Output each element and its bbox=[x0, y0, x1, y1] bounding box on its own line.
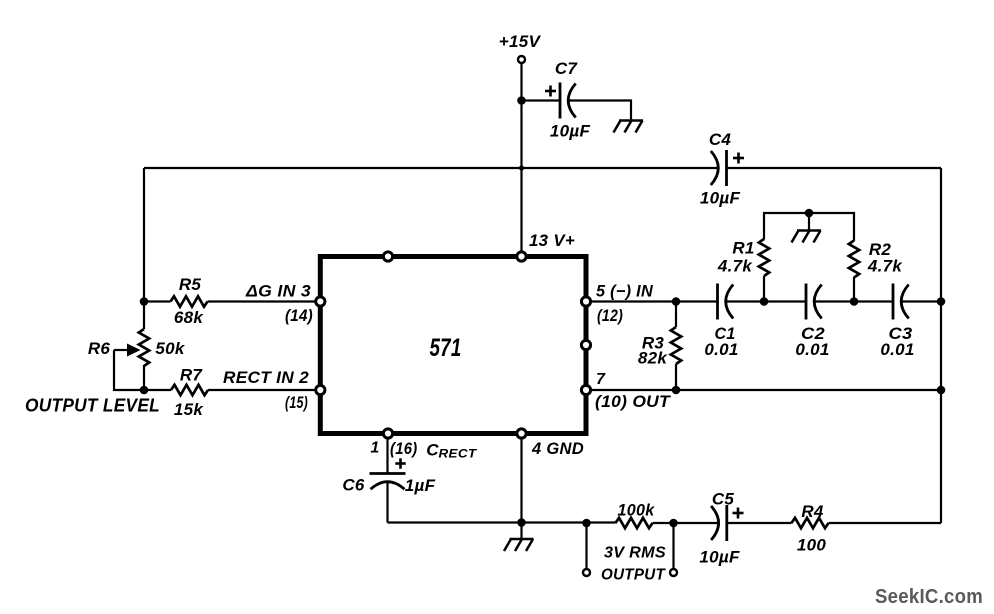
svg-text:50k: 50k bbox=[155, 339, 186, 358]
svg-text:R7: R7 bbox=[180, 366, 204, 385]
svg-text:C6: C6 bbox=[342, 476, 365, 495]
svg-text:4.7k: 4.7k bbox=[867, 257, 904, 276]
svg-text:(10) OUT: (10) OUT bbox=[595, 393, 672, 411]
svg-text:3V RMS: 3V RMS bbox=[604, 545, 666, 562]
svg-text:100k: 100k bbox=[618, 502, 656, 520]
svg-text:1: 1 bbox=[370, 440, 379, 457]
svg-text:SeekIC.com: SeekIC.com bbox=[875, 585, 983, 608]
svg-text:10µF: 10µF bbox=[699, 548, 740, 567]
svg-text:C5: C5 bbox=[712, 490, 735, 509]
svg-text:(14): (14) bbox=[285, 307, 313, 325]
svg-text:C7: C7 bbox=[555, 59, 579, 78]
svg-text:1µF: 1µF bbox=[405, 476, 436, 495]
svg-text:10µF: 10µF bbox=[700, 189, 741, 208]
svg-text:C: C bbox=[426, 441, 439, 460]
svg-text:RECT IN 2: RECT IN 2 bbox=[223, 369, 309, 387]
svg-text:5 (−) IN: 5 (−) IN bbox=[596, 283, 654, 301]
svg-text:0.01: 0.01 bbox=[880, 340, 914, 359]
svg-text:R6: R6 bbox=[88, 339, 111, 358]
svg-text:(16): (16) bbox=[390, 440, 418, 458]
svg-text:RECT: RECT bbox=[439, 447, 479, 461]
svg-text:R4: R4 bbox=[801, 502, 824, 521]
svg-text:10µF: 10µF bbox=[550, 122, 591, 141]
svg-text:0.01: 0.01 bbox=[704, 340, 738, 359]
svg-text:C4: C4 bbox=[709, 130, 732, 149]
svg-text:OUTPUT LEVEL: OUTPUT LEVEL bbox=[25, 395, 160, 416]
svg-text:+15V: +15V bbox=[499, 32, 542, 51]
svg-text:13 V+: 13 V+ bbox=[529, 231, 575, 250]
svg-text:82k: 82k bbox=[638, 349, 669, 368]
svg-text:0.01: 0.01 bbox=[795, 340, 829, 359]
svg-text:ΔG IN 3: ΔG IN 3 bbox=[245, 283, 311, 301]
svg-text:R1: R1 bbox=[732, 239, 754, 258]
svg-text:100: 100 bbox=[797, 536, 827, 555]
svg-text:15k: 15k bbox=[174, 400, 205, 419]
svg-text:(15): (15) bbox=[285, 394, 308, 412]
svg-text:4.7k: 4.7k bbox=[717, 257, 754, 276]
svg-text:OUTPUT: OUTPUT bbox=[601, 567, 666, 584]
svg-text:7: 7 bbox=[596, 371, 606, 388]
svg-text:R5: R5 bbox=[179, 275, 202, 294]
svg-text:4 GND: 4 GND bbox=[531, 439, 584, 458]
svg-text:571: 571 bbox=[430, 334, 462, 362]
svg-text:(12): (12) bbox=[597, 307, 623, 325]
svg-text:68k: 68k bbox=[174, 308, 205, 327]
